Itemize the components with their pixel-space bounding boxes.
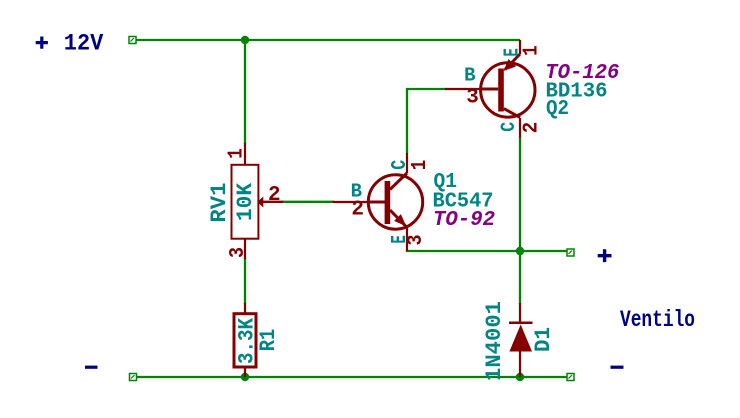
svg-text:12V: 12V: [64, 31, 104, 57]
svg-text:3: 3: [466, 87, 479, 110]
svg-text:2: 2: [268, 184, 281, 207]
svg-text:3: 3: [227, 247, 250, 258]
svg-text:Q2: Q2: [546, 98, 569, 121]
svg-text:B: B: [464, 65, 475, 87]
svg-text:10K: 10K: [233, 182, 258, 221]
svg-text:1: 1: [409, 160, 432, 171]
svg-text:TO-126: TO-126: [545, 62, 619, 85]
svg-text:TO-92: TO-92: [433, 208, 495, 232]
svg-text:2: 2: [351, 199, 364, 222]
svg-text:1: 1: [226, 148, 249, 159]
svg-text:C: C: [498, 122, 521, 132]
svg-text:2: 2: [521, 122, 544, 134]
svg-text:D1: D1: [531, 327, 556, 352]
svg-text:R1: R1: [256, 329, 281, 352]
svg-text:RV1: RV1: [207, 183, 232, 223]
svg-text:Ventilo: Ventilo: [620, 307, 695, 333]
svg-text:1: 1: [521, 45, 544, 56]
svg-text:3: 3: [405, 235, 428, 246]
svg-text:1N4001: 1N4001: [482, 301, 507, 381]
